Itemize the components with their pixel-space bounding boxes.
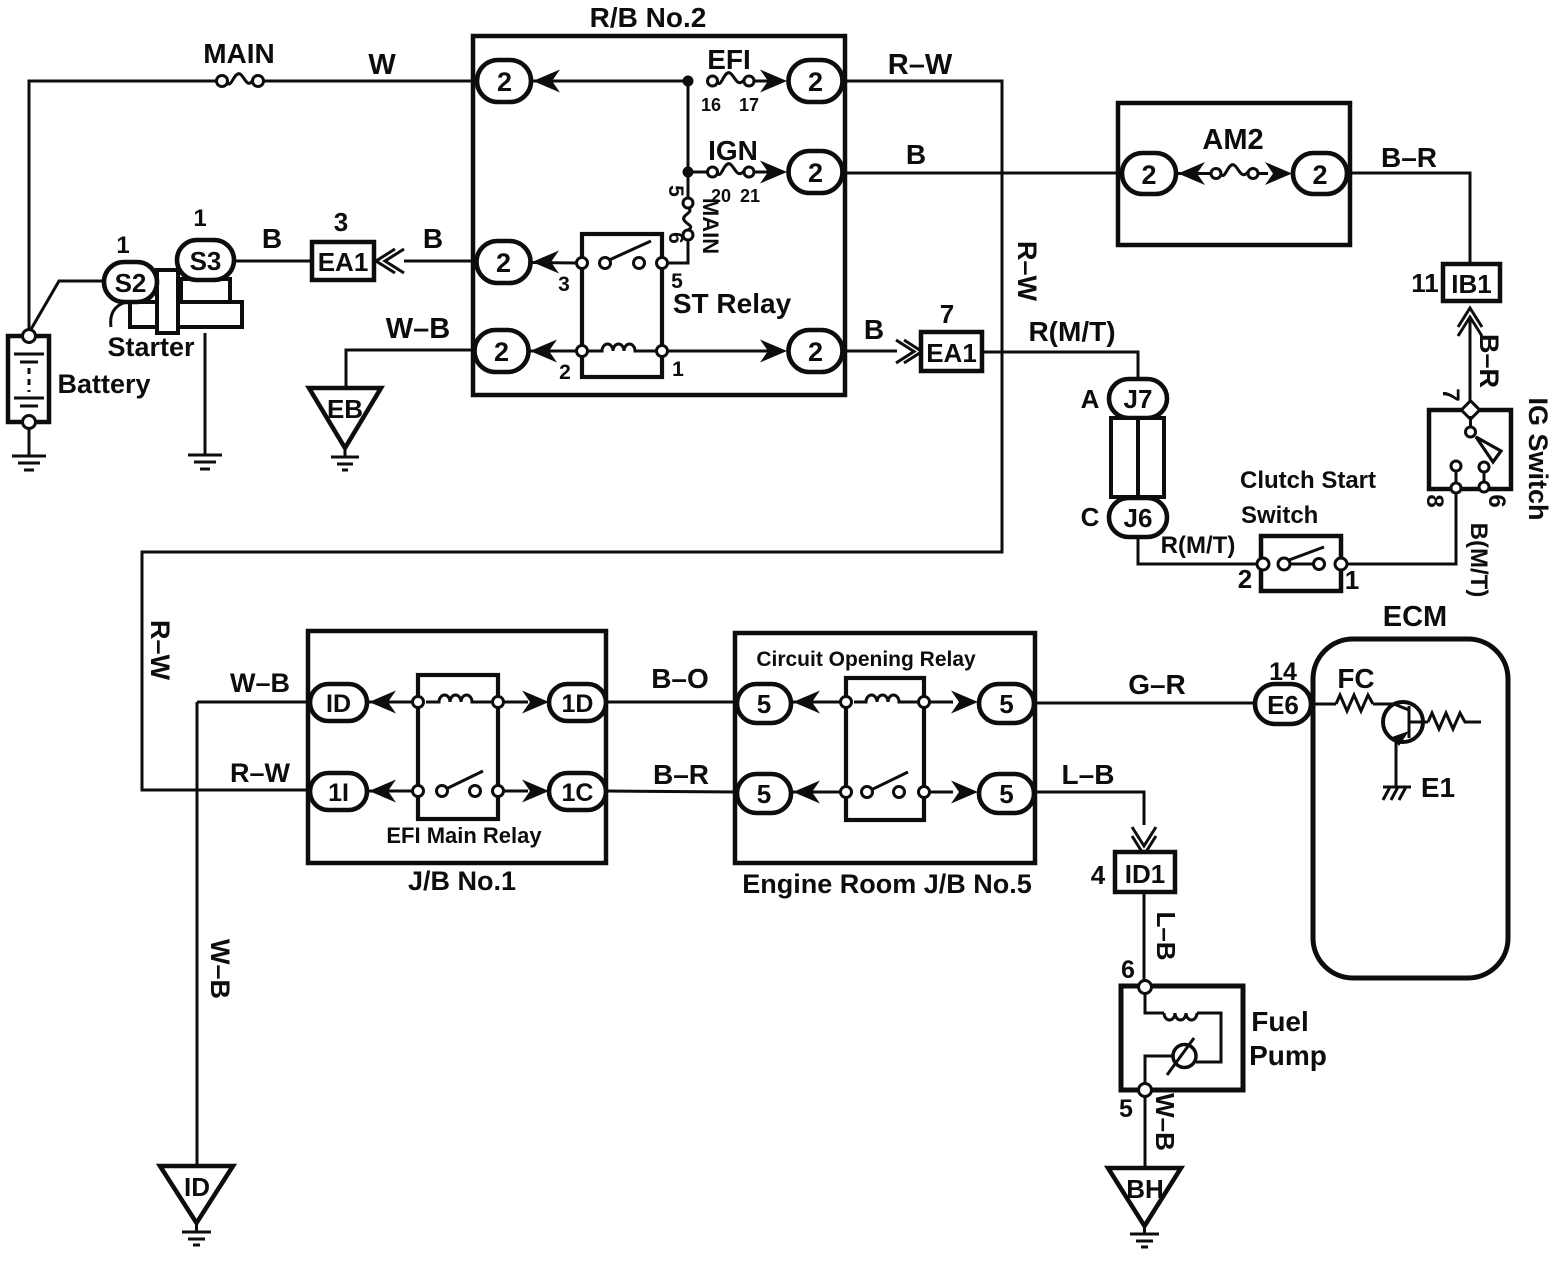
svg-text:W–B: W–B xyxy=(386,313,450,345)
fusible link MAIN (vertical), pins 5 6 xyxy=(664,185,723,254)
svg-text:B–O: B–O xyxy=(651,663,709,694)
wire W-B fuel pump to BH ground, pin 5 xyxy=(1119,1093,1180,1168)
svg-text:B: B xyxy=(423,223,443,254)
svg-text:FC: FC xyxy=(1337,663,1374,694)
wire B-R from AM2 to IB1 xyxy=(1347,142,1470,264)
svg-text:11: 11 xyxy=(1411,268,1439,298)
connector E6, pin 14 xyxy=(1255,658,1311,724)
svg-text:A: A xyxy=(1081,384,1100,414)
svg-text:6: 6 xyxy=(1483,494,1510,507)
wire EFI fuse to connector xyxy=(754,80,768,83)
svg-text:IB1: IB1 xyxy=(1451,269,1491,299)
fuse MAIN (fusible link) xyxy=(203,38,275,87)
svg-text:B: B xyxy=(906,139,926,170)
svg-text:ID1: ID1 xyxy=(1125,859,1165,889)
svg-text:R–W: R–W xyxy=(145,620,175,681)
svg-text:5: 5 xyxy=(757,779,771,809)
svg-text:B–R: B–R xyxy=(653,759,709,790)
svg-text:B: B xyxy=(864,314,884,345)
fuse AM2 xyxy=(1178,165,1268,179)
wire W-B ID to ground ID xyxy=(197,702,235,1167)
wire B-O 1D to J/B No.5 xyxy=(606,663,737,702)
svg-text:S3: S3 xyxy=(190,246,222,276)
wire 1I arrow to relay xyxy=(369,790,413,793)
svg-text:2: 2 xyxy=(808,67,823,97)
wire EA1 to J7, label R(M/T) xyxy=(982,316,1138,379)
svg-text:Engine Room J/B No.5: Engine Room J/B No.5 xyxy=(742,869,1032,899)
svg-text:MAIN: MAIN xyxy=(203,38,275,69)
wire to EFI node xyxy=(533,80,688,83)
wire R/B to EA1 (7), label B xyxy=(845,314,922,363)
ground ID xyxy=(160,1166,233,1245)
svg-text:R–W: R–W xyxy=(230,758,291,788)
svg-text:3: 3 xyxy=(558,273,570,296)
svg-text:ECM: ECM xyxy=(1383,601,1447,633)
svg-text:5: 5 xyxy=(1119,1095,1133,1123)
transistor Q (fuel pump control) xyxy=(1373,702,1428,787)
connector 5 (J/B No.5 left top) xyxy=(737,684,820,723)
junction connector EA1, pin 3 xyxy=(312,207,404,280)
wire arrow to relay coil xyxy=(793,701,841,704)
svg-text:2: 2 xyxy=(1238,564,1252,594)
wire IGN fuse to connector xyxy=(754,171,768,174)
svg-text:6: 6 xyxy=(1121,956,1135,984)
svg-text:2: 2 xyxy=(494,337,509,367)
svg-text:EB: EB xyxy=(327,394,363,424)
svg-text:5: 5 xyxy=(664,185,687,197)
svg-text:R(M/T): R(M/T) xyxy=(1028,316,1115,347)
svg-text:ID: ID xyxy=(326,690,351,718)
svg-text:Clutch Start: Clutch Start xyxy=(1240,467,1376,494)
svg-text:R–W: R–W xyxy=(1012,241,1042,302)
svg-text:3: 3 xyxy=(334,207,348,237)
svg-text:EFI Main Relay: EFI Main Relay xyxy=(386,823,542,848)
svg-text:1C: 1C xyxy=(562,779,594,807)
svg-text:ID: ID xyxy=(184,1172,210,1202)
switch clutch start, pins 2 1 xyxy=(1238,467,1376,595)
svg-text:E1: E1 xyxy=(1421,772,1455,803)
svg-text:B–R: B–R xyxy=(1474,334,1504,388)
svg-text:Switch: Switch xyxy=(1241,502,1318,529)
ECM xyxy=(1313,601,1508,978)
svg-text:ST Relay: ST Relay xyxy=(673,288,792,319)
svg-text:5: 5 xyxy=(757,689,771,719)
svg-text:L–B: L–B xyxy=(1151,911,1181,960)
svg-text:EA1: EA1 xyxy=(926,338,977,368)
svg-text:G–R: G–R xyxy=(1128,669,1186,700)
svg-text:B: B xyxy=(262,223,282,254)
svg-text:2: 2 xyxy=(1312,160,1327,190)
svg-text:IGN: IGN xyxy=(708,135,758,166)
svg-text:Pump: Pump xyxy=(1249,1040,1327,1071)
wire W-B into ID xyxy=(197,668,310,702)
ground (battery) xyxy=(12,428,46,470)
svg-text:Battery: Battery xyxy=(57,369,150,399)
svg-text:B(M/T): B(M/T) xyxy=(1465,523,1492,598)
svg-text:J7: J7 xyxy=(1124,384,1153,414)
svg-text:R(M/T): R(M/T) xyxy=(1161,532,1236,559)
svg-text:8: 8 xyxy=(1421,494,1448,507)
connector 2 (R/B right, IGN) xyxy=(760,151,843,193)
wire B-R 1C to J/B No.5 xyxy=(606,759,737,792)
ground E1 xyxy=(1383,772,1455,803)
svg-text:W–B: W–B xyxy=(1150,1093,1180,1151)
connector 5 (J/B No.5 right top) xyxy=(929,684,1034,723)
junction connector EA1, pin 7 xyxy=(921,299,982,371)
relay Circuit Opening xyxy=(756,648,976,820)
connector 1I (J/B No.1) xyxy=(310,773,396,810)
svg-text:2: 2 xyxy=(496,248,511,278)
wire ST relay pin 1 to connector xyxy=(667,350,768,353)
svg-text:2: 2 xyxy=(559,361,571,384)
svg-text:1: 1 xyxy=(1345,565,1359,595)
wire MAIN fuse to R/B No.2, label W xyxy=(263,49,473,81)
svg-text:2: 2 xyxy=(497,67,512,97)
wire L-B to ID1 xyxy=(1034,759,1156,855)
svg-text:J/B No.1: J/B No.1 xyxy=(408,866,516,896)
junction connector ID1, pin 4 xyxy=(1091,852,1175,892)
svg-text:16: 16 xyxy=(701,95,721,115)
connector 2 (R/B top-right) xyxy=(760,60,843,102)
svg-text:W–B: W–B xyxy=(205,939,235,999)
fuse IGN, pins 20 21 xyxy=(693,135,760,206)
connector S3, pin 1 xyxy=(177,205,234,280)
svg-text:14: 14 xyxy=(1269,658,1297,686)
svg-text:IG Switch: IG Switch xyxy=(1523,397,1553,520)
svg-text:2: 2 xyxy=(808,337,823,367)
svg-text:5: 5 xyxy=(999,779,1013,809)
node IGN feed (junction) xyxy=(683,167,694,178)
svg-text:BH: BH xyxy=(1126,1174,1164,1204)
wire S3 to EA1, label B xyxy=(234,223,312,261)
svg-text:6: 6 xyxy=(664,232,687,244)
wire starter to ground xyxy=(204,333,207,455)
wire battery positive to MAIN fuse (W) xyxy=(29,81,217,330)
svg-text:4: 4 xyxy=(1091,860,1106,890)
wire IGN node down to MAIN link xyxy=(687,172,690,198)
junction block Engine Room J/B No.5 xyxy=(735,633,1035,899)
svg-text:R/B No.2: R/B No.2 xyxy=(590,2,707,33)
resistor (collector) xyxy=(1428,713,1481,729)
ground EB xyxy=(309,388,381,470)
svg-text:EFI: EFI xyxy=(707,44,751,75)
wire arrow to relay switch xyxy=(793,791,841,794)
wire battery to starter S2 xyxy=(30,281,105,331)
svg-text:21: 21 xyxy=(740,186,760,206)
svg-text:B–R: B–R xyxy=(1381,142,1437,173)
connector 2 (AM2 left) xyxy=(1122,153,1205,194)
junction block J7/J6 xyxy=(1111,418,1164,497)
wire L-B ID1 to fuel pump, pin 6 xyxy=(1121,892,1181,984)
svg-text:EA1: EA1 xyxy=(318,247,369,277)
fuse EFI, pins 16 17 xyxy=(701,44,759,115)
svg-text:L–B: L–B xyxy=(1062,759,1115,790)
connector J7, pin A xyxy=(1081,379,1167,418)
svg-text:S2: S2 xyxy=(115,268,147,298)
connector S2, pin 1 xyxy=(104,232,157,302)
svg-text:J6: J6 xyxy=(1124,503,1153,533)
wire R-W from R/B top-right across page xyxy=(142,49,1042,790)
svg-text:1I: 1I xyxy=(328,779,349,807)
junction block R/B No.2 xyxy=(473,2,845,395)
svg-text:5: 5 xyxy=(999,689,1013,719)
connector 2 (AM2 right) xyxy=(1265,153,1347,194)
svg-text:W: W xyxy=(368,49,396,81)
svg-text:7: 7 xyxy=(1437,388,1464,401)
wire EA1 to R/B No.2, label B xyxy=(404,223,473,261)
wire arrow to ST relay pin 2 xyxy=(530,350,577,353)
connector J6, pin C xyxy=(1081,498,1167,537)
svg-text:17: 17 xyxy=(739,95,759,115)
svg-text:1: 1 xyxy=(672,358,684,381)
ground (starter) xyxy=(188,455,222,469)
wire B-R from IG switch to IB1 (up arrows) xyxy=(1458,308,1504,406)
svg-text:AM2: AM2 xyxy=(1202,124,1263,156)
wire ID arrow to relay xyxy=(369,701,413,704)
svg-text:2: 2 xyxy=(808,158,823,188)
wire B(M/T) IG pin 8 to clutch switch pin 1 xyxy=(1346,493,1492,597)
starter xyxy=(107,270,242,362)
svg-text:1D: 1D xyxy=(562,690,594,718)
svg-text:R–W: R–W xyxy=(888,49,953,81)
svg-text:1: 1 xyxy=(116,232,129,259)
junction connector IB1, pin 11 xyxy=(1411,264,1500,301)
node EFI feed (junction) xyxy=(683,76,694,87)
svg-text:Starter: Starter xyxy=(107,332,195,362)
wire arrow to ST relay pin 3 xyxy=(532,261,577,265)
wire W-B to EB ground xyxy=(346,313,474,389)
relay ST xyxy=(558,234,791,384)
connector 2 (R/B bottom-left) xyxy=(475,330,558,372)
relay EFI Main xyxy=(386,675,542,848)
svg-text:E6: E6 xyxy=(1267,690,1299,720)
fuel pump xyxy=(1121,981,1327,1097)
connector 5 (J/B No.5 left bottom) xyxy=(737,774,820,813)
switch IG xyxy=(1421,388,1553,520)
svg-text:MAIN: MAIN xyxy=(698,198,723,254)
svg-text:Circuit Opening Relay: Circuit Opening Relay xyxy=(756,648,976,671)
connector 1D (J/B No.1) xyxy=(503,684,606,721)
junction block AM2 xyxy=(1118,103,1350,245)
wire MAIN link to ST relay pin 5 xyxy=(667,240,688,263)
svg-text:1: 1 xyxy=(193,205,206,232)
connector 1C (J/B No.1) xyxy=(503,773,606,810)
wire G-R to ECM E6 xyxy=(1034,669,1255,703)
wire EFI node to IGN node xyxy=(687,81,690,172)
connector 2 (R/B top-left) xyxy=(477,60,560,102)
wire R(M/T) J6 to clutch switch pin 2 xyxy=(1138,532,1257,564)
connector 2 (R/B middle-left) xyxy=(477,241,560,283)
connector 2 (R/B bottom-right) xyxy=(760,330,843,372)
resistor (FC input) xyxy=(1311,663,1375,711)
junction block J/B No.1 xyxy=(308,631,606,896)
wire B from R/B to AM2 xyxy=(843,139,1122,173)
ground BH xyxy=(1108,1168,1181,1247)
connector ID (J/B No.1) xyxy=(310,684,396,721)
connector 5 (J/B No.5 right bottom) xyxy=(929,774,1034,813)
svg-text:C: C xyxy=(1081,502,1100,532)
battery xyxy=(8,330,151,429)
svg-text:W–B: W–B xyxy=(230,668,290,698)
svg-text:7: 7 xyxy=(940,299,954,329)
svg-text:Fuel: Fuel xyxy=(1251,1006,1309,1037)
svg-text:2: 2 xyxy=(1141,160,1156,190)
